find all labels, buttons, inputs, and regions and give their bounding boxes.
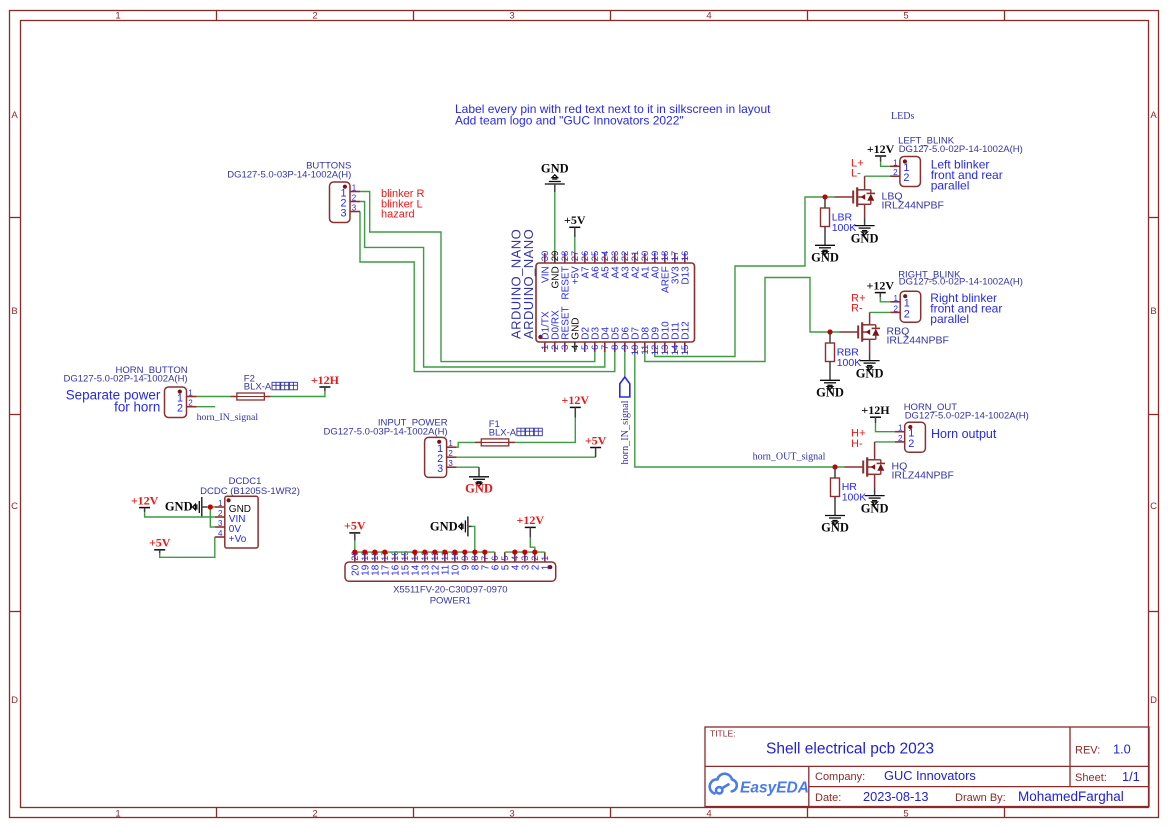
wire blinker L: BUTTONS pin2 to arduino D4	[360, 202, 605, 368]
svg-text:3: 3	[520, 556, 530, 561]
connector RIGHT_BLINK DG127-5.0-02P-14-1002A(H)	[900, 291, 921, 322]
svg-text:5: 5	[500, 556, 510, 561]
svg-text:GND: GND	[465, 482, 493, 496]
border column ticks top	[216, 11, 218, 21]
junction dot RBQ gate	[827, 329, 832, 334]
wire hazard: BUTTONS pin3 to arduino D5	[360, 212, 615, 372]
svg-text:1: 1	[218, 499, 223, 508]
svg-text:GUC Innovators: GUC Innovators	[884, 768, 976, 783]
svg-text:D: D	[11, 695, 18, 706]
ground RBR	[820, 380, 840, 389]
wire +5V to DCDC +Vo	[160, 537, 215, 557]
svg-text:4: 4	[706, 10, 711, 21]
junction dot HQ gate	[832, 464, 837, 469]
wire HORN_BUTTON pin2 stub	[197, 406, 216, 408]
svg-text:R-: R-	[851, 303, 863, 315]
wire arduino D8 to RBQ gate	[645, 278, 840, 362]
resistor RBR 100K	[829, 332, 831, 343]
svg-text:6: 6	[491, 564, 502, 570]
border row ticks right	[1149, 217, 1159, 219]
svg-text:8: 8	[470, 556, 480, 561]
svg-text:BLX-A: BLX-A	[489, 427, 517, 438]
svg-text:1: 1	[188, 388, 193, 397]
ground HR	[825, 516, 845, 525]
svg-text:19: 19	[361, 564, 372, 576]
svg-text:+5V: +5V	[149, 536, 171, 550]
svg-text:LEDs: LEDs	[891, 111, 914, 122]
ground LBR	[815, 245, 835, 254]
wire blinker R: BUTTONS pin1 to arduino D3	[360, 192, 595, 362]
fuse F2 BLX-A	[231, 396, 237, 398]
svg-text:2: 2	[312, 808, 317, 819]
svg-text:17: 17	[381, 564, 392, 576]
svg-text:IRLZ44NPBF: IRLZ44NPBF	[892, 469, 954, 481]
title block frame	[705, 727, 1149, 807]
svg-text:EasyEDA: EasyEDA	[740, 779, 809, 796]
svg-text:+12H: +12H	[311, 373, 340, 387]
svg-text:5: 5	[903, 10, 908, 21]
svg-text:1: 1	[893, 158, 898, 167]
svg-text:4: 4	[706, 808, 711, 819]
svg-text:3: 3	[521, 564, 532, 570]
wire RIGHT_BLINK pin2 to RBQ drain	[870, 311, 891, 313]
junction dot DCDC gnd	[208, 504, 213, 509]
wire fuse F2 to +12H	[271, 391, 325, 396]
svg-text:MohamedFarghal: MohamedFarghal	[1018, 789, 1124, 804]
svg-text:1.0: 1.0	[1113, 742, 1131, 757]
svg-text:2: 2	[312, 10, 317, 21]
svg-text:IRLZ44NPBF: IRLZ44NPBF	[887, 334, 949, 346]
svg-text:15: 15	[401, 564, 412, 576]
svg-text:15: 15	[680, 345, 691, 356]
svg-text:3: 3	[218, 519, 223, 528]
net port flag horn_IN_signal at arduino D6	[620, 377, 630, 397]
wire GND to POWER1 pin8	[472, 526, 475, 552]
svg-text:+12V: +12V	[562, 393, 590, 407]
wire +12V to DCDC VIN	[145, 512, 215, 517]
svg-text:horn_IN_signal: horn_IN_signal	[620, 400, 631, 464]
svg-text:1: 1	[540, 556, 550, 561]
wire +12V to RIGHT_BLINK pin1	[880, 297, 890, 302]
svg-text:IRLZ44NPBF: IRLZ44NPBF	[882, 199, 944, 211]
svg-text:Add team logo and "GUC Innovat: Add team logo and "GUC Innovators 2022"	[455, 114, 684, 128]
svg-text:10: 10	[451, 564, 462, 576]
svg-text:5: 5	[903, 808, 908, 819]
svg-text:+12V: +12V	[517, 513, 545, 527]
junction dot LBQ gate	[822, 194, 827, 199]
connector LEFT_BLINK DG127-5.0-02P-14-1002A(H)	[900, 157, 921, 187]
ground INPUT_POWER (red label)	[478, 467, 480, 477]
wire HORN_OUT pin2 to HQ drain	[875, 441, 895, 443]
svg-text:Shell electrical pcb 2023: Shell electrical pcb 2023	[766, 741, 934, 758]
svg-text:4: 4	[511, 564, 522, 570]
svg-text:+12V: +12V	[867, 278, 895, 292]
wire arduino D7 to HQ gate (horn_OUT_signal)	[635, 351, 845, 467]
svg-text:horn_IN_signal: horn_IN_signal	[197, 412, 259, 423]
svg-text:DG127-5.0-02P-14-1002A(H): DG127-5.0-02P-14-1002A(H)	[905, 410, 1029, 421]
border row ticks left	[10, 217, 21, 219]
svg-text:GND: GND	[811, 250, 839, 264]
svg-text:DG127-5.0-02P-14-1002A(H): DG127-5.0-02P-14-1002A(H)	[64, 374, 188, 385]
wire +5V to arduino pin 27	[574, 237, 576, 263]
svg-text:Date:: Date:	[815, 792, 841, 804]
svg-text:8: 8	[471, 564, 482, 570]
svg-text:L-: L-	[851, 168, 861, 180]
svg-text:1: 1	[893, 294, 898, 303]
svg-text:2: 2	[893, 304, 898, 313]
svg-text:2: 2	[530, 556, 540, 561]
svg-text:1: 1	[115, 808, 120, 819]
svg-text:DG127-5.0-02P-14-1002A(H): DG127-5.0-02P-14-1002A(H)	[899, 276, 1023, 287]
arduino bottom pins 1..15	[544, 342, 546, 352]
wire arduino D6 to horn_IN_signal flag	[624, 351, 626, 377]
svg-text:2: 2	[903, 172, 909, 184]
svg-text:parallel: parallel	[930, 312, 969, 326]
wire arduino D9 to LBQ gate	[655, 197, 835, 357]
svg-text:2: 2	[893, 168, 898, 177]
svg-text:D13: D13	[681, 266, 692, 285]
svg-text:2: 2	[448, 449, 453, 458]
wire POWER1 bus right (pins 5-1)	[505, 551, 545, 553]
svg-text:parallel: parallel	[931, 179, 970, 193]
svg-text:D: D	[1150, 695, 1157, 706]
svg-text:+12V: +12V	[867, 142, 895, 156]
svg-text:BLX-A: BLX-A	[244, 382, 272, 393]
svg-text:3: 3	[352, 203, 357, 212]
wire +12V to LEFT_BLINK pin1	[881, 162, 890, 167]
svg-text:2: 2	[352, 193, 357, 202]
svg-text:B: B	[11, 306, 17, 317]
svg-text:+5V: +5V	[344, 519, 366, 533]
svg-text:3: 3	[448, 459, 453, 468]
svg-text:GND: GND	[821, 521, 849, 535]
wire POWER1 bus left (pins 20-6)	[355, 551, 495, 553]
svg-text:horn_OUT_signal: horn_OUT_signal	[753, 452, 826, 463]
svg-text:1/1: 1/1	[1122, 769, 1140, 784]
svg-text:2: 2	[188, 399, 193, 408]
svg-text:C: C	[11, 501, 18, 512]
arduino top pins 30..16	[544, 253, 546, 263]
svg-text:9: 9	[460, 556, 470, 561]
svg-text:A: A	[11, 110, 18, 121]
transistor RBQ IRLZ44NPBF	[840, 331, 859, 333]
wire INPUT_POWER pin2 to +5V	[457, 456, 596, 458]
svg-text:+Vo: +Vo	[229, 534, 247, 545]
svg-text:Company:: Company:	[815, 771, 865, 783]
svg-text:C: C	[1150, 501, 1157, 512]
wire HORN_BUTTON pin1 to fuse F2	[197, 396, 231, 398]
svg-text:D12: D12	[681, 321, 692, 340]
svg-text:+5V: +5V	[585, 433, 607, 447]
svg-text:18: 18	[371, 564, 382, 576]
resistor LBR 100K	[824, 197, 826, 208]
svg-text:DG127-5.0-02P-14-1002A(H): DG127-5.0-02P-14-1002A(H)	[899, 144, 1023, 155]
svg-text:A: A	[1150, 110, 1157, 121]
wire +12H to HORN_OUT pin1	[876, 423, 895, 432]
wire +5V to POWER1 pin20	[354, 541, 356, 553]
svg-text:+12H: +12H	[861, 403, 890, 417]
border column ticks bottom	[216, 808, 218, 818]
svg-text:14: 14	[411, 564, 422, 576]
wire INPUT_POWER pin3 to GND	[457, 466, 479, 468]
svg-text:H-: H-	[851, 438, 863, 450]
wire LEFT_BLINK pin2 to LBQ drain	[865, 175, 890, 177]
svg-text:4: 4	[510, 556, 520, 561]
svg-text:11: 11	[441, 564, 452, 575]
svg-text:+12V: +12V	[131, 493, 159, 507]
POWER1 pins 20..1	[544, 552, 546, 562]
ground HQ source	[874, 488, 876, 496]
svg-text:2: 2	[904, 308, 910, 320]
svg-text:Horn output: Horn output	[931, 427, 997, 441]
svg-text:2: 2	[218, 509, 223, 518]
svg-text:13: 13	[421, 564, 432, 576]
svg-text:12: 12	[431, 564, 442, 576]
connector BUTTONS DG127-5.0-03P-14-1002A(H)	[330, 182, 351, 223]
svg-text:Sheet:: Sheet:	[1075, 772, 1107, 784]
svg-text:6: 6	[490, 556, 500, 561]
transistor HQ IRLZ44NPBF	[845, 466, 864, 468]
wire DCDC GND to pin1 and pin3	[207, 506, 215, 508]
svg-text:4: 4	[218, 529, 223, 538]
svg-text:2: 2	[898, 434, 903, 443]
svg-text:REV:: REV:	[1075, 745, 1100, 757]
resistor HR 100K	[834, 467, 836, 478]
svg-text:hazard: hazard	[381, 209, 415, 221]
svg-text:3: 3	[437, 463, 443, 475]
svg-text:1: 1	[352, 183, 357, 192]
wire GND to arduino pin 29	[554, 192, 556, 263]
svg-text:1: 1	[541, 564, 552, 570]
svg-text:GND: GND	[861, 502, 889, 516]
svg-text:X5511FV-20-C30D97-0970: X5511FV-20-C30D97-0970	[393, 585, 507, 596]
svg-text:for horn: for horn	[114, 399, 160, 414]
svg-text:GND: GND	[541, 162, 569, 176]
svg-text:GND: GND	[165, 500, 193, 514]
svg-text:POWER1: POWER1	[430, 596, 471, 607]
svg-text:2: 2	[177, 403, 183, 415]
EasyEDA logo	[710, 774, 737, 794]
connector INPUT_POWER DG127-5.0-03P-14-1002A(H)	[425, 437, 447, 477]
svg-text:GND: GND	[430, 519, 458, 533]
svg-text:16: 16	[680, 251, 691, 262]
svg-text:2023-08-13: 2023-08-13	[863, 789, 928, 804]
component DCDC1 B1205S-1WR2	[225, 496, 258, 548]
svg-text:3: 3	[509, 10, 514, 21]
wire INPUT_POWER pin1 to fuse F1	[457, 442, 476, 447]
svg-text:Drawn By:: Drawn By:	[955, 792, 1006, 804]
connector HORN_BUTTON DG127-5.0-02P-14-1002A(H)	[165, 387, 187, 418]
svg-text:3: 3	[509, 808, 514, 819]
transistor LBQ IRLZ44NPBF	[835, 196, 854, 198]
svg-text:7: 7	[481, 564, 492, 570]
svg-text:5: 5	[501, 564, 512, 570]
ground RBQ source	[869, 353, 871, 361]
svg-text:B: B	[1150, 306, 1156, 317]
svg-text:1: 1	[115, 10, 120, 21]
connector POWER1 X5511FV-20-C30D97-0970	[345, 562, 556, 581]
svg-text:20: 20	[351, 564, 362, 576]
connector HORN_OUT DG127-5.0-02P-14-1002A(H)	[905, 422, 926, 452]
junction dots POWER1	[352, 550, 357, 555]
component ARDUINO_NANO body	[536, 263, 695, 342]
svg-text:DG127-5.0-03P-14-1002A(H): DG127-5.0-03P-14-1002A(H)	[324, 426, 448, 437]
fuse F1 BLX-A	[475, 441, 481, 443]
svg-text:1: 1	[448, 439, 453, 448]
svg-text:2: 2	[531, 564, 542, 570]
svg-text:DG127-5.0-03P-14-1002A(H): DG127-5.0-03P-14-1002A(H)	[227, 170, 351, 181]
svg-text:2: 2	[908, 438, 914, 450]
svg-text:7: 7	[480, 556, 490, 561]
svg-text:16: 16	[391, 564, 402, 576]
svg-text:GND: GND	[816, 385, 844, 399]
svg-text:DCDC (B1205S-1WR2): DCDC (B1205S-1WR2)	[200, 486, 300, 497]
svg-text:GND: GND	[851, 232, 879, 246]
svg-text:3: 3	[340, 207, 346, 219]
ground LBQ source	[864, 218, 866, 226]
svg-text:ARDUINO_NANO: ARDUINO_NANO	[521, 229, 536, 339]
wire fuse F1 to +12V	[515, 418, 575, 443]
wire +12V to POWER1 pin2	[530, 538, 535, 553]
svg-text:GND: GND	[856, 367, 884, 381]
svg-text:TITLE:: TITLE:	[710, 729, 736, 739]
svg-text:+5V: +5V	[564, 213, 586, 227]
svg-text:1: 1	[898, 424, 903, 433]
svg-text:9: 9	[461, 564, 472, 570]
